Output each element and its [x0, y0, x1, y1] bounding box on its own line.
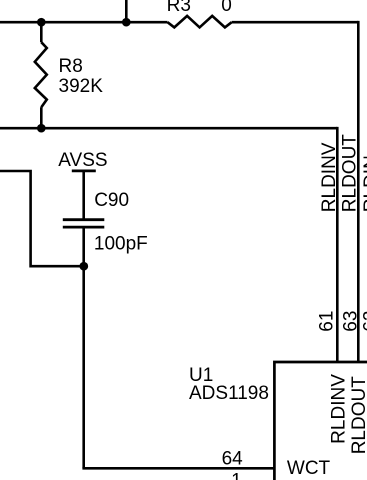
svg-text:R3: R3: [167, 0, 191, 16]
wire top horizontal right segment: [232, 21, 359, 24]
svg-text:AVSS: AVSS: [58, 150, 107, 171]
wire vertical stub to top edge: [125, 0, 128, 22]
resistor R3 zigzag: [168, 16, 232, 28]
node junction at R8 top: [37, 18, 46, 27]
power symbol AVSS bar: [72, 169, 96, 172]
svg-text:0: 0: [221, 0, 232, 16]
node junction below capacitor: [79, 262, 88, 271]
wire capacitor bottom lead: [82, 227, 85, 266]
svg-text:RLDIN: RLDIN: [361, 155, 367, 212]
capacitor C90 plates: [63, 220, 105, 227]
svg-text:62: 62: [361, 311, 367, 332]
svg-text:64: 64: [222, 449, 244, 470]
wire AVSS to capacitor: [82, 171, 85, 220]
svg-text:R8: R8: [59, 56, 83, 77]
svg-text:RLDOUT: RLDOUT: [340, 134, 361, 213]
svg-text:63: 63: [340, 311, 361, 332]
wire second horizontal: [0, 127, 337, 130]
wire WCT horizontal to pin 64: [82, 467, 274, 470]
wire RLDOUT vertical: [357, 21, 360, 362]
svg-text:RLDINV: RLDINV: [319, 142, 340, 212]
svg-text:ADS1198: ADS1198: [189, 383, 269, 404]
svg-text:C90: C90: [94, 190, 129, 211]
svg-text:392K: 392K: [59, 76, 104, 97]
svg-text:1: 1: [231, 471, 242, 480]
wire RLDINV vertical: [336, 127, 339, 362]
wire left L-shape: [0, 171, 84, 266]
op-amp U1 IC box outline: [274, 362, 367, 480]
wire WCT vertical: [82, 266, 85, 468]
svg-text:RLDINV: RLDINV: [329, 374, 350, 444]
svg-text:RLDOUT: RLDOUT: [349, 376, 367, 455]
svg-text:WCT: WCT: [287, 458, 331, 479]
svg-text:61: 61: [316, 311, 337, 332]
wire top horizontal left segment: [0, 21, 168, 24]
svg-text:100pF: 100pF: [94, 234, 148, 255]
node junction at stub: [122, 18, 131, 27]
node junction at R8 bottom: [37, 124, 46, 133]
resistor R8 body: [35, 22, 47, 128]
